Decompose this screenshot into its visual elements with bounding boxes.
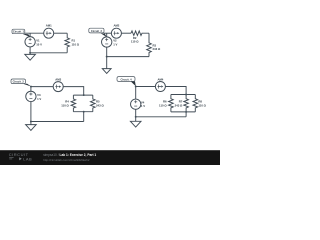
svg-text:1 V: 1 V xyxy=(141,104,145,108)
svg-text:LAB: LAB xyxy=(23,157,32,162)
wire AM3 to corner and drop xyxy=(63,87,83,96)
svg-text:1 V: 1 V xyxy=(37,97,41,101)
wire bottom drop c4 xyxy=(185,112,187,117)
wire V1 top stem xyxy=(29,33,31,37)
resistor R2 xyxy=(131,31,149,36)
junction dot c3 flag node xyxy=(30,86,32,88)
svg-text:AM1: AM1 xyxy=(46,24,52,28)
svg-text:Circuit_4: Circuit_4 xyxy=(120,77,132,81)
resistor R5 xyxy=(91,95,96,112)
wire bottom bus c4 xyxy=(171,111,195,113)
voltage source V2 xyxy=(102,37,112,47)
svg-text:110 Ω: 110 Ω xyxy=(131,39,139,43)
resistor R1 xyxy=(65,33,70,53)
node flag Circuit_2 xyxy=(100,33,106,37)
ammeter AM3 xyxy=(53,82,63,92)
svg-text:simpsa10 / Lab 1: Exercise 2,: simpsa10 / Lab 1: Exercise 2, Part 1 xyxy=(43,153,96,157)
svg-text:Circuit_3: Circuit_3 xyxy=(13,80,25,84)
ground c2 xyxy=(106,57,108,69)
junction dot c2 bottom xyxy=(106,56,108,58)
resistor R3 xyxy=(147,33,152,56)
wire top rail c1 xyxy=(25,32,44,34)
wire rail AM1 to R1 corner xyxy=(54,32,67,34)
svg-text:10 V: 10 V xyxy=(36,42,42,46)
wire bottom rail c2 xyxy=(107,56,149,58)
ammeter AM4 xyxy=(155,82,165,92)
junction dot c3 bottom bus xyxy=(83,111,85,113)
wire bottom rail c1 xyxy=(30,52,67,54)
ammeter AM2 xyxy=(111,28,121,38)
wire V3 stems xyxy=(30,87,32,122)
junction dot c4 bottom bus xyxy=(185,111,187,113)
svg-text:AM3: AM3 xyxy=(55,77,61,81)
resistor R8 xyxy=(193,95,198,112)
junction dot c4 bottom rail xyxy=(135,116,137,118)
wire top rail c2 xyxy=(104,32,112,34)
resistor R6 xyxy=(169,95,174,112)
svg-text:243 Ω: 243 Ω xyxy=(96,103,104,107)
voltage source V4 xyxy=(131,99,141,109)
svg-text:AM4: AM4 xyxy=(157,77,163,81)
wire top rail c3 xyxy=(31,86,53,88)
svg-text:AM2: AM2 xyxy=(113,24,119,28)
svg-text:110 Ω: 110 Ω xyxy=(159,103,167,107)
wire bottom rail c3 xyxy=(31,121,84,123)
wire bottom rail c4 xyxy=(136,116,186,118)
junction dot c3 top bus xyxy=(83,94,85,96)
wire top rail c4 xyxy=(136,86,156,88)
junction dot c1 xyxy=(29,52,31,54)
wire V2 bottom stem xyxy=(106,47,108,57)
ammeter AM1 xyxy=(44,28,54,38)
ground c3 xyxy=(30,122,32,125)
wire top bus c4 xyxy=(171,94,195,96)
wire bottom drop c3 xyxy=(83,112,85,122)
wire V2 top stem xyxy=(106,33,108,37)
wire AM2 to R2 xyxy=(121,32,131,34)
svg-text:1 V: 1 V xyxy=(113,42,117,46)
svg-text:110 Ω: 110 Ω xyxy=(72,42,80,46)
svg-text:243 Ω: 243 Ω xyxy=(153,47,161,51)
junction dot c4 flag node xyxy=(135,86,137,88)
junction dot c3 bottom rail xyxy=(30,121,32,123)
resistor R4 xyxy=(71,95,76,112)
svg-text:Circuit_2: Circuit_2 xyxy=(91,29,103,33)
wire bottom bus c3 xyxy=(73,111,92,113)
svg-text:110 Ω: 110 Ω xyxy=(198,103,206,107)
voltage source V1 xyxy=(25,37,35,47)
wire V1 bottom stem xyxy=(29,47,31,53)
svg-text:243 Ω: 243 Ω xyxy=(175,103,183,107)
node flag Circuit_4 xyxy=(131,81,136,86)
node flag Circuit_1 xyxy=(22,34,30,37)
svg-text:http://circuitlab.com/c6mw93k6: http://circuitlab.com/c6mw93k6kwh2 xyxy=(43,158,90,162)
wire top bus c3 xyxy=(73,94,92,96)
wire V4 stems xyxy=(135,87,137,117)
resistor R7 xyxy=(184,95,189,112)
node flag Circuit_3 xyxy=(23,84,32,87)
svg-text:Circuit_1: Circuit_1 xyxy=(13,30,25,34)
junction dot c4 top bus xyxy=(185,94,187,96)
voltage source V3 xyxy=(26,91,36,101)
svg-text:110 Ω: 110 Ω xyxy=(61,103,69,107)
footer background xyxy=(0,150,220,165)
wire AM4 to corner and drop xyxy=(165,87,186,95)
ground c4 xyxy=(135,117,137,122)
ground c1 xyxy=(29,53,31,55)
